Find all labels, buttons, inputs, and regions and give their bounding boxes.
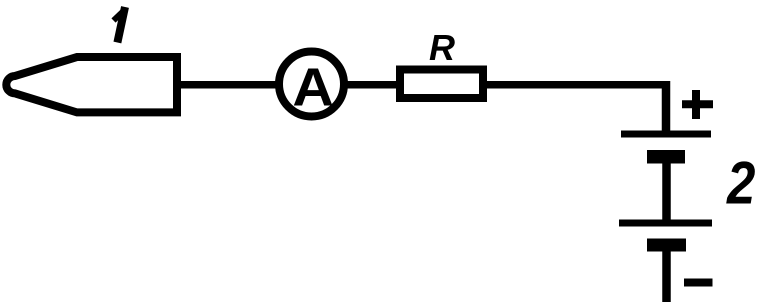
svg-text:2: 2 [726,150,755,217]
battery cell 2 long plate [619,220,712,227]
wire from resistor to battery corner [483,81,666,89]
resistor R body [400,70,483,99]
svg-text:A: A [292,57,334,117]
electrode probe 1 (bullet shape) [6,57,177,112]
svg-text:R: R [429,27,455,68]
wire from probe to ammeter [179,81,285,89]
battery cell 2 short thick plate [647,239,686,252]
plus sign [682,100,713,108]
ammeter U1 circle [279,52,344,117]
battery cell 1 short thick plate [647,150,685,164]
wire corner down to battery [662,81,671,131]
label 1 [117,7,125,43]
battery cell 1 long plate [621,131,711,138]
wire from ammeter to resistor [344,81,400,89]
wire below battery [662,251,671,302]
wire between cells [662,163,671,220]
minus sign [684,279,713,287]
